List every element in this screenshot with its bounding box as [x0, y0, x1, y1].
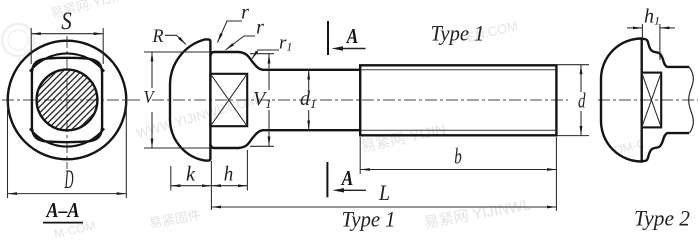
svg-text:b: b [454, 144, 462, 169]
shank section circle d1 hatched [37, 70, 98, 131]
svg-text:易紧固件: 易紧固件 [148, 207, 202, 231]
svg-text:S: S [61, 8, 72, 35]
threaded portion box (major dia d) [360, 65, 556, 135]
svg-text:h: h [224, 162, 234, 186]
dome head Type 2 [601, 38, 642, 161]
thread minor line bottom [362, 129, 556, 131]
X diagonal 2 [210, 74, 247, 126]
dimension L [211, 137, 556, 211]
dimension D [8, 100, 127, 198]
dimension d [557, 65, 589, 136]
svg-text:Type 2: Type 2 [634, 206, 690, 231]
square neck flat (X-box) [210, 74, 247, 126]
dimension V [144, 52, 211, 148]
svg-text:h1: h1 [644, 5, 660, 27]
label r second with leader [226, 17, 265, 51]
head dome circle V bottom arc [30, 129, 104, 147]
svg-text:V: V [144, 87, 156, 107]
centerline [152, 99, 568, 101]
svg-text:R: R [152, 26, 164, 47]
dome head outline with lip and bearing face [170, 39, 210, 160]
shank break line [689, 67, 694, 133]
svg-text:d1: d1 [300, 88, 317, 111]
svg-text:A–A: A–A [45, 198, 80, 222]
label r1 with leader [252, 32, 293, 59]
dimension d1 [300, 70, 317, 130]
square neck silhouette top with fillet r1 [210, 52, 360, 70]
square neck silhouette bottom with fillet r1 [210, 130, 360, 148]
svg-text:Type 1: Type 1 [431, 21, 485, 46]
svg-text:D: D [64, 165, 74, 194]
head dome circle V top arc [30, 53, 104, 71]
svg-text:L: L [378, 180, 390, 205]
dimension b [360, 137, 556, 174]
cap outline top [642, 39, 689, 67]
svg-text:A: A [340, 166, 353, 190]
dimension k [171, 161, 212, 210]
svg-text:Type 1: Type 1 [342, 207, 396, 232]
square neck S (rounded square) [32, 58, 102, 142]
view label A-A [43, 198, 83, 223]
svg-text:易紧网·YIJIN: 易紧网·YIJIN [359, 121, 447, 156]
X diagonal 1 [642, 73, 662, 128]
label R with leader [152, 26, 186, 47]
svg-text:r: r [256, 17, 264, 39]
dimension V1 [250, 54, 274, 147]
head circle D [8, 41, 127, 160]
svg-text:V1: V1 [253, 88, 272, 111]
label r first with leader [218, 2, 250, 43]
section marker A top [328, 21, 366, 55]
dimension S [31, 8, 103, 64]
svg-text:A: A [345, 24, 358, 48]
svg-text:易紧网 YIJINWL: 易紧网 YIJINWL [423, 196, 533, 232]
watermark circle logo top-left [2, 24, 34, 56]
dimension h1 [627, 5, 675, 60]
dimension h [211, 150, 247, 191]
X diagonal 2 [642, 73, 662, 128]
centerline horizontal [2, 99, 140, 101]
X diagonal 1 [210, 74, 247, 126]
svg-text:k: k [186, 162, 196, 186]
square neck flat Type 2 (X-box) [642, 73, 662, 128]
cap outline bottom [642, 133, 689, 161]
svg-text:d: d [578, 89, 586, 113]
svg-text:r1: r1 [279, 32, 292, 53]
centerline vertical [66, 36, 68, 169]
section marker A bottom [327, 162, 366, 197]
thread minor line top [362, 69, 556, 71]
svg-text:r: r [241, 2, 249, 24]
centerline [598, 99, 698, 101]
